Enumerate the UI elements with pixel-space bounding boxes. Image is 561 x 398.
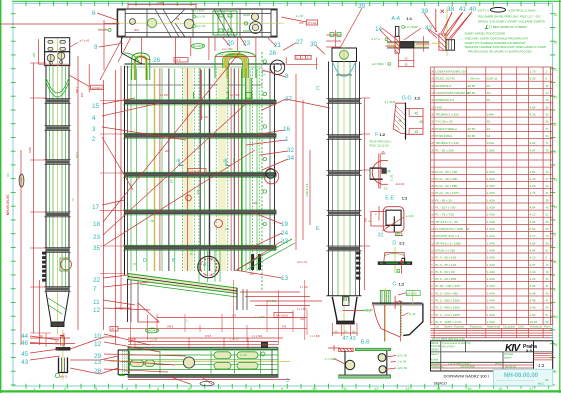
svg-text:33: 33 xyxy=(281,238,289,245)
svg-text:ø3 b 30: ø3 b 30 xyxy=(407,292,417,296)
svg-text:PL 6 - 60 x 60: PL 6 - 60 x 60 xyxy=(435,270,454,274)
svg-text:TRUBKA 3 x 200: TRUBKA 3 x 200 xyxy=(435,113,459,117)
main view diagonal beam lower line xyxy=(140,284,237,297)
svg-text:NH-1700-4: NH-1700-4 xyxy=(442,344,455,348)
svg-text:45: 45 xyxy=(387,169,391,173)
svg-text:17,35: 17,35 xyxy=(390,174,394,181)
detail D green box xyxy=(397,270,400,273)
svg-text:883: 883 xyxy=(250,273,255,276)
section B-B top flange xyxy=(356,348,391,350)
detail D red arrow line xyxy=(401,259,403,273)
svg-text:38: 38 xyxy=(447,6,455,13)
svg-text:Tolerovani: Tolerovani xyxy=(431,365,443,369)
svg-text:C: C xyxy=(316,86,320,92)
svg-text:1.438: 1.438 xyxy=(487,206,495,210)
svg-text:1.438: 1.438 xyxy=(487,220,495,224)
svg-text:4.16: 4.16 xyxy=(530,177,536,181)
svg-text:1 x 1.500: 1 x 1.500 xyxy=(310,335,321,338)
svg-text:M16: M16 xyxy=(134,28,140,32)
svg-text:Pozn: Pozn xyxy=(544,325,551,329)
note oval mark xyxy=(490,8,505,13)
bottom beam slots upper row xyxy=(214,352,231,359)
detail F dims xyxy=(381,153,385,155)
svg-text:F: F xyxy=(375,132,378,138)
svg-text:ø88: ø88 xyxy=(165,150,170,153)
red leaders right stack xyxy=(246,70,330,170)
svg-text:Cis.polozl: Cis.polozl xyxy=(503,325,516,329)
svg-text:1.000: 1.000 xyxy=(487,170,495,174)
svg-text:1:2: 1:2 xyxy=(538,363,545,368)
svg-text:10: 10 xyxy=(94,333,102,340)
svg-text:0.48: 0.48 xyxy=(530,291,536,295)
section E-E left box xyxy=(371,212,386,227)
svg-text:42: 42 xyxy=(487,98,491,102)
svg-text:1.005: 1.005 xyxy=(487,148,495,152)
svg-text:--- --- --- --- --- --- --- --: --- --- --- --- --- --- --- --- --- -- -… xyxy=(496,379,534,382)
section A-A red dims xyxy=(385,45,395,47)
svg-text:46: 46 xyxy=(21,340,29,347)
section E-E bottom dim xyxy=(396,233,402,236)
svg-text:26: 26 xyxy=(153,57,161,64)
svg-text:D: D xyxy=(143,258,147,264)
svg-text:Kus: Kus xyxy=(434,325,439,329)
svg-text:ø.2 x 300: ø.2 x 300 xyxy=(222,48,233,51)
svg-text:6.04: 6.04 xyxy=(530,227,536,231)
svg-text:B: B xyxy=(554,40,557,45)
right column cap studs xyxy=(326,34,341,36)
left column rungs xyxy=(45,98,71,100)
svg-text:40: 40 xyxy=(469,6,477,13)
svg-text:PL 30 - 100 x 230: PL 30 - 100 x 230 xyxy=(435,284,460,288)
svg-text:J: J xyxy=(554,232,556,237)
svg-text:PL12 - 30 x 1677: PL12 - 30 x 1677 xyxy=(435,191,459,195)
svg-text:42: 42 xyxy=(487,91,491,95)
svg-text:10: 10 xyxy=(312,386,317,391)
bottom beam circle xyxy=(183,357,194,368)
svg-text:45: 45 xyxy=(398,119,402,123)
section A-A slot top xyxy=(395,26,399,36)
main view top edge xyxy=(125,63,286,65)
svg-text:94 kg: 94 kg xyxy=(495,361,502,365)
section B-B bottom flange xyxy=(339,375,391,378)
section E-E diagonals xyxy=(382,217,404,231)
parts list header row xyxy=(431,327,553,329)
left column top bracket xyxy=(45,38,70,52)
svg-text:1.440: 1.440 xyxy=(487,227,495,231)
top beam hole 1 xyxy=(130,19,136,25)
detail D centerline xyxy=(394,247,396,273)
svg-text:3: 3 xyxy=(92,126,96,133)
svg-text:15: 15 xyxy=(467,386,472,391)
bottom beam bottom bar xyxy=(128,375,278,378)
svg-text:CSN: CSN xyxy=(518,325,524,329)
svg-text:42: 42 xyxy=(487,134,491,138)
svg-text:SEMCO: SEMCO xyxy=(434,381,448,385)
svg-text:1x 30: 1x 30 xyxy=(409,312,416,316)
left column catenary xyxy=(46,78,69,93)
right column body xyxy=(328,62,330,296)
section B-B big circle xyxy=(345,360,354,369)
svg-text:TESNOST NADRZE KONTROLOVAT PRE: TESNOST NADRZE KONTROLOVAT PRETLAKEM 0.3… xyxy=(465,45,547,49)
svg-text:ø82: ø82 xyxy=(253,202,258,205)
top bolt leader fan xyxy=(428,13,471,40)
svg-text:1:2: 1:2 xyxy=(399,241,405,245)
svg-text:35: 35 xyxy=(93,245,101,252)
svg-text:0.3.500: 0.3.500 xyxy=(268,300,277,303)
bottom left part bar xyxy=(56,348,70,351)
svg-text:6.20: 6.20 xyxy=(530,77,536,81)
svg-text:2 x 300: 2 x 300 xyxy=(300,286,309,289)
right column cyan catenary xyxy=(333,63,355,77)
svg-text:10: 10 xyxy=(223,159,227,163)
svg-text:12: 12 xyxy=(374,386,379,391)
red boxed label 4 xyxy=(174,58,188,63)
bottom beam leader diagonals xyxy=(168,376,212,384)
svg-text:1785: 1785 xyxy=(157,1,164,5)
right column taper dims xyxy=(343,310,364,312)
detail D base bar xyxy=(378,262,412,265)
svg-text:PL 4 - 35 x 120: PL 4 - 35 x 120 xyxy=(435,263,456,267)
svg-text:2 x 1.500: 2 x 1.500 xyxy=(255,316,266,319)
svg-text:Ra1 x 5000: Ra1 x 5000 xyxy=(191,9,205,13)
svg-text:PASNICE 5: PASNICE 5 xyxy=(435,84,451,88)
svg-text:1:2: 1:2 xyxy=(380,133,386,137)
red leaders top labels xyxy=(97,13,276,60)
svg-text:34: 34 xyxy=(287,155,295,162)
svg-text:C: C xyxy=(262,71,266,77)
cyan part number labels xyxy=(21,3,477,375)
svg-text:42: 42 xyxy=(487,84,491,88)
left margin weld oval xyxy=(19,174,24,187)
parts list table grid xyxy=(431,67,553,325)
svg-text:a 4,30: a 4,30 xyxy=(406,214,414,218)
svg-text:2 x 300: 2 x 300 xyxy=(200,116,209,119)
svg-text:43: 43 xyxy=(21,359,29,366)
svg-text:KOTY V: KOTY V xyxy=(478,8,489,12)
right column taper inner box xyxy=(343,297,350,306)
svg-text:4.04: 4.04 xyxy=(530,141,536,145)
svg-text:1.440: 1.440 xyxy=(487,284,495,288)
bottom left to beam leaders xyxy=(70,337,118,374)
main view vertical stripes xyxy=(184,68,194,271)
svg-text:24: 24 xyxy=(281,230,289,237)
main view top-left gusset xyxy=(121,37,123,53)
svg-text:16: 16 xyxy=(283,126,291,133)
section E-E rounded square xyxy=(383,207,404,232)
svg-text:60 50: 60 50 xyxy=(468,127,476,131)
svg-text:8: 8 xyxy=(285,73,289,80)
svg-text:Datum: Datum xyxy=(504,355,512,359)
svg-text:PL12 - 30 x 300: PL12 - 30 x 300 xyxy=(435,177,457,181)
section E-E centerline xyxy=(378,206,380,221)
svg-text:1.440: 1.440 xyxy=(487,299,495,303)
top beam centerline xyxy=(112,22,284,24)
svg-text:1:2: 1:2 xyxy=(402,197,408,201)
svg-text:KRUH 3 x 230: KRUH 3 x 230 xyxy=(435,249,455,253)
svg-text:2 x 1.500: 2 x 1.500 xyxy=(297,308,308,311)
svg-text:KRUZITI 44,5 x 3: KRUZITI 44,5 x 3 xyxy=(435,234,459,238)
svg-text:9: 9 xyxy=(94,44,98,51)
svg-text:368: 368 xyxy=(364,217,368,222)
red dims left of main view xyxy=(77,56,79,330)
svg-text:CSN 014406: CSN 014406 xyxy=(460,365,475,369)
bottom left leader lines xyxy=(30,336,60,360)
leaders 27-30 xyxy=(283,43,325,54)
bottom beam top bar xyxy=(128,347,278,349)
red dim above right arch xyxy=(215,56,256,58)
svg-text:1:2: 1:2 xyxy=(399,282,405,286)
svg-text:4: 4 xyxy=(92,115,96,122)
svg-text:17: 17 xyxy=(529,386,534,391)
svg-text:E: E xyxy=(554,122,557,127)
left column side ladder marks xyxy=(43,252,47,254)
svg-text:23: 23 xyxy=(243,40,251,47)
svg-text:60 80: 60 80 xyxy=(468,134,476,138)
svg-text:1440: 1440 xyxy=(487,113,494,117)
svg-text:ø1.6: ø1.6 xyxy=(175,58,181,62)
svg-text:1.000: 1.000 xyxy=(487,177,495,181)
svg-text:C: C xyxy=(393,281,397,287)
left column inner stripes xyxy=(49,66,51,292)
svg-text:1440: 1440 xyxy=(487,141,494,145)
svg-text:2.5: 2.5 xyxy=(384,186,388,190)
svg-text:Ra1 x 5000: Ra1 x 5000 xyxy=(220,53,235,57)
svg-text:PL 3 - 170 x 1265: PL 3 - 170 x 1265 xyxy=(435,313,460,317)
detail C inner red xyxy=(394,296,396,309)
svg-text:KIV: KIV xyxy=(505,343,521,354)
top beam green detail right xyxy=(243,14,250,16)
left column weld circle xyxy=(61,259,72,270)
svg-text:634: 634 xyxy=(81,92,84,97)
svg-text:1 x 45: 1 x 45 xyxy=(296,14,304,18)
main view small weld circles xyxy=(263,60,266,63)
top beam hole 2 xyxy=(147,18,156,27)
svg-text:PL - 30 x 200: PL - 30 x 200 xyxy=(435,148,454,152)
svg-text:NH-00.00: NH-00.00 xyxy=(505,365,517,369)
parts list table text xyxy=(431,70,549,324)
svg-text:4.04: 4.04 xyxy=(530,241,536,245)
svg-text:1.439: 1.439 xyxy=(487,213,495,217)
svg-text:Navrhl: Navrhl xyxy=(431,352,439,356)
svg-text:A4573+0.8: A4573+0.8 xyxy=(305,183,309,196)
bottom beam left end cap xyxy=(118,350,128,375)
svg-text:60 50: 60 50 xyxy=(468,84,476,88)
main view arch leg bands xyxy=(223,78,229,100)
bottom beam left obrounds xyxy=(131,360,144,367)
svg-text:4.64: 4.64 xyxy=(530,284,536,288)
svg-text:PL 6 - 40 x 855: PL 6 - 40 x 855 xyxy=(435,277,456,281)
svg-text:TR 44,5 x 3 - 1060: TR 44,5 x 3 - 1060 xyxy=(435,241,461,245)
main view right brace diagonals xyxy=(237,239,292,270)
main view left edge xyxy=(124,66,126,275)
detail C khaki right xyxy=(412,290,414,306)
svg-text:4.13: 4.13 xyxy=(530,256,536,260)
detail F channel xyxy=(370,167,383,169)
svg-text:45: 45 xyxy=(21,351,29,358)
main view cyan weld symbols xyxy=(179,159,184,166)
red horizontal dim rows below main view xyxy=(240,291,300,293)
notes text block top right xyxy=(465,8,547,53)
left column taper xyxy=(46,292,69,322)
svg-text:42: 42 xyxy=(487,120,491,124)
svg-text:1:1: 1:1 xyxy=(407,17,413,21)
svg-text:16: 16 xyxy=(498,386,503,391)
svg-text:a.2 x 30: a.2 x 30 xyxy=(196,15,206,19)
svg-text:ø4.5 x 30: ø4.5 x 30 xyxy=(297,261,308,264)
red dim ticks left xyxy=(100,100,125,102)
svg-text:14: 14 xyxy=(375,26,383,33)
section A-A vertical plate hatched xyxy=(395,36,400,53)
svg-text:NH2x45: NH2x45 xyxy=(147,329,157,333)
main view right leg bracket xyxy=(252,255,254,270)
svg-text:INDEX: INDEX xyxy=(431,348,439,352)
svg-text:VSECHNY SVARY DOKONALE PROVARO: VSECHNY SVARY DOKONALE PROVAROVAT xyxy=(465,36,529,40)
svg-text:17 H11: 17 H11 xyxy=(190,170,200,174)
svg-text:ø2 b 30: ø2 b 30 xyxy=(398,366,408,370)
red dim verticals below main view xyxy=(130,305,132,345)
svg-text:E-E: E-E xyxy=(385,196,394,202)
right column rungs xyxy=(327,98,362,100)
svg-text:14: 14 xyxy=(436,386,441,391)
top beam double boss xyxy=(250,22,262,34)
svg-text:a.s.: a.s. xyxy=(526,348,533,353)
svg-text:a.2 x 5600: a.2 x 5600 xyxy=(405,25,419,29)
red leaders from left labels xyxy=(102,98,186,190)
svg-text:C: C xyxy=(554,67,557,72)
svg-text:41: 41 xyxy=(459,6,467,13)
svg-text:H: H xyxy=(554,205,557,210)
svg-text:240: 240 xyxy=(232,315,237,318)
svg-text:ø6: ø6 xyxy=(369,219,373,223)
svg-text:POLOMER OHYBU PRO DILY POS.1,2: POLOMER OHYBU PRO DILY POS.1,2,7 - R2 xyxy=(478,14,541,18)
svg-text:15: 15 xyxy=(92,103,100,110)
top beam end caps xyxy=(118,10,125,36)
svg-text:R5: R5 xyxy=(176,17,180,21)
left column bolt section xyxy=(45,52,70,66)
red boxed label 1 xyxy=(188,169,206,174)
svg-text:POS. 10,12,34: POS. 10,12,34 xyxy=(370,143,389,147)
svg-text:PL 3 - 1265 x 1770: PL 3 - 1265 x 1770 xyxy=(435,320,461,324)
detail F arc xyxy=(372,160,382,184)
svg-text:100: 100 xyxy=(150,220,155,223)
svg-text:Nazev - Rozmer: Nazev - Rozmer xyxy=(444,325,464,329)
svg-text:PLECH HRDLA: PLECH HRDLA xyxy=(435,127,458,131)
svg-text:2 x 3030: 2 x 3030 xyxy=(385,100,396,104)
section G-G channel xyxy=(406,109,423,135)
svg-text:NH-00.00.00: NH-00.00.00 xyxy=(504,373,539,379)
bottom left part U channel xyxy=(59,358,68,373)
svg-text:NADSTAVBA NADRZ 30: NADSTAVBA NADRZ 30 xyxy=(435,91,469,95)
svg-text:6: 6 xyxy=(92,10,96,17)
svg-text:DILEC 1/2 HG: DILEC 1/2 HG xyxy=(435,77,455,81)
section A-A nut block xyxy=(400,42,414,48)
svg-text:4.17: 4.17 xyxy=(530,234,536,238)
svg-text:NH-0018: NH-0018 xyxy=(193,44,204,48)
svg-text:1.76: 1.76 xyxy=(530,191,536,195)
bottom beam body xyxy=(129,350,279,375)
left column red dims bottom xyxy=(30,337,70,339)
svg-text:DATUM: DATUM xyxy=(431,344,440,348)
section B-B webs xyxy=(344,351,346,375)
svg-text:1.440: 1.440 xyxy=(487,263,495,267)
svg-text:12: 12 xyxy=(93,307,101,314)
drawing number cyan box xyxy=(493,369,552,385)
svg-text:19: 19 xyxy=(281,221,289,228)
svg-text:39: 39 xyxy=(421,8,429,15)
svg-text:4.04: 4.04 xyxy=(530,220,536,224)
svg-text:60 80: 60 80 xyxy=(468,91,476,95)
svg-text:30: 30 xyxy=(310,41,318,48)
bottom left part centerline xyxy=(62,330,64,380)
svg-text:4.22: 4.22 xyxy=(530,277,536,281)
svg-text:2: 2 xyxy=(92,136,96,143)
svg-text:2 x 1.500: 2 x 1.500 xyxy=(252,335,263,338)
svg-text:700: 700 xyxy=(233,157,236,162)
svg-text:13: 13 xyxy=(281,275,289,282)
boxed label under 27-30 xyxy=(295,55,311,59)
svg-text:PODLOZKA: PODLOZKA xyxy=(435,134,453,138)
svg-text:list 1 .: list 1 . xyxy=(538,382,546,386)
sheet outer border xyxy=(0,0,2,393)
left column red dims left side xyxy=(37,39,39,64)
svg-text:23: 23 xyxy=(93,234,101,241)
svg-text:Materional: Materional xyxy=(487,325,500,329)
bottom beam top red dims xyxy=(128,341,278,343)
svg-text:ø6x 30: ø6x 30 xyxy=(60,376,68,379)
svg-text:45: 45 xyxy=(111,327,115,331)
svg-text:9.48: 9.48 xyxy=(530,306,536,310)
top beam plan view xyxy=(117,9,277,37)
svg-text:1 x 170: 1 x 170 xyxy=(205,348,214,351)
svg-text:100: 100 xyxy=(300,318,305,321)
svg-text:4.04: 4.04 xyxy=(530,105,536,109)
svg-text:10: 10 xyxy=(176,159,180,163)
svg-text:688.5: 688.5 xyxy=(76,86,79,93)
svg-text:1.430: 1.430 xyxy=(487,191,495,195)
top bolt detail 38-41-40 xyxy=(446,8,448,56)
main view left neck arch xyxy=(132,53,150,80)
svg-text:ø2 b 30: ø2 b 30 xyxy=(398,354,408,358)
svg-text:PRI ZKOUSCE JE NADRZ V LEZATE: PRI ZKOUSCE JE NADRZ V LEZATE POLOZE xyxy=(468,50,532,54)
svg-text:1.430: 1.430 xyxy=(487,198,495,202)
svg-text:163.5: 163.5 xyxy=(75,151,79,158)
svg-text:~ 30 mm: ~ 30 mm xyxy=(468,77,481,81)
red boxed label 3 xyxy=(110,327,118,332)
svg-text:a 17 H: a 17 H xyxy=(371,37,379,41)
svg-text:31: 31 xyxy=(378,232,384,238)
bottom beam bottom red line xyxy=(128,379,290,381)
svg-text:16.45: 16.45 xyxy=(530,320,538,324)
svg-text:P: P xyxy=(554,370,557,375)
svg-text:5.48: 5.48 xyxy=(530,299,536,303)
svg-text:1.6x45: 1.6x45 xyxy=(128,338,136,341)
svg-text:1.440: 1.440 xyxy=(487,241,495,245)
svg-text:NH-00.00.00: NH-00.00.00 xyxy=(6,195,10,215)
svg-text:G: G xyxy=(554,177,557,182)
svg-text:11: 11 xyxy=(93,299,100,306)
svg-text:30: 30 xyxy=(405,57,408,61)
svg-text:TYC 60 x 30: TYC 60 x 30 xyxy=(435,120,452,124)
svg-text:PREPAZKA 5: PREPAZKA 5 xyxy=(435,98,454,102)
svg-text:35: 35 xyxy=(405,63,408,67)
svg-text:180: 180 xyxy=(32,52,36,57)
main view big flange xyxy=(198,256,220,278)
main view horizontal bars xyxy=(123,99,276,101)
red emphasis verticals top xyxy=(184,70,186,120)
left column body edges xyxy=(45,66,47,292)
svg-text:4.07: 4.07 xyxy=(530,148,536,152)
svg-text:Kreslil: Kreslil xyxy=(431,358,438,362)
